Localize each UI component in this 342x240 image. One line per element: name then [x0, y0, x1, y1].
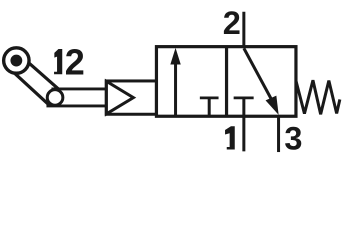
- port 3 line: [277, 115, 280, 152]
- plunger bottom line: [46, 105, 106, 108]
- roller circle: [47, 90, 63, 106]
- diagonal flow arrow shaft: [244, 48, 273, 101]
- label 12 digit 1: [54, 49, 62, 74]
- lever arm upper line: [29, 63, 60, 90]
- blocked port T left bar: [200, 96, 219, 99]
- pivot circle: [4, 48, 29, 73]
- position divider: [225, 47, 228, 117]
- svg-text:3: 3: [284, 121, 302, 157]
- pilot triangle: [106, 81, 133, 114]
- port 1 line with T stem: [242, 98, 245, 151]
- left flow arrow shaft: [174, 60, 177, 116]
- svg-text:2: 2: [65, 41, 85, 82]
- plunger top line: [51, 88, 106, 91]
- svg-text:2: 2: [223, 5, 241, 41]
- lever arm lower line: [15, 74, 50, 106]
- pilot box: [106, 81, 156, 114]
- label 1: [225, 126, 235, 149]
- port 2 line: [242, 12, 245, 47]
- pivot dot: [10, 55, 22, 67]
- diagonal flow arrow head: [266, 96, 279, 115]
- return spring: [296, 80, 340, 114]
- blocked port T right bar: [234, 96, 254, 99]
- valve body: [156, 47, 296, 117]
- left flow arrow head: [170, 48, 180, 65]
- blocked port T left stem: [208, 98, 211, 116]
